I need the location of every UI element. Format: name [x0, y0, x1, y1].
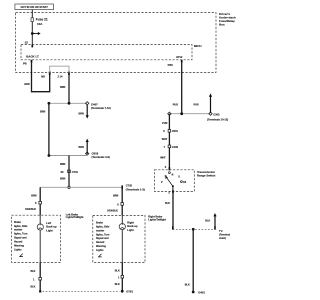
junction dot [180, 112, 183, 115]
svg-text:J 14: J 14 [57, 75, 63, 79]
left ground wire end [39, 290, 41, 292]
svg-text:PUR: PUR [194, 103, 199, 106]
pin C731 [68, 170, 71, 173]
svg-text:WHT: WHT [160, 156, 166, 159]
terminal joint left pin [172, 226, 174, 229]
right back-up light feed: corner pin C732 [121, 185, 123, 189]
BLK stub arrow from right taillight [213, 213, 216, 227]
switch bottom pin [172, 190, 174, 193]
wire from hot box to fuse 21 [31, 10, 33, 18]
right lamp note arrow [99, 254, 102, 257]
svg-text:BACK LT: BACK LT [26, 55, 39, 59]
svg-text:BRN: BRN [79, 113, 84, 116]
down arrow through C407 [86, 105, 89, 119]
wire down to transmission range switch [168, 114, 170, 170]
right back-up bulb [119, 223, 125, 229]
svg-text:C731: C731 [72, 170, 79, 174]
junction dot at left end [48, 154, 51, 157]
svg-text:ORA/BLK: ORA/BLK [107, 210, 118, 213]
svg-text:(Terminals 4-9): (Terminals 4-9) [92, 155, 110, 159]
junction dot at J14 wire [68, 102, 71, 105]
left bypass wire (thick) [48, 103, 50, 155]
pin 5 left [39, 201, 42, 204]
pin C618 [86, 152, 89, 155]
svg-text:BRN: BRN [79, 146, 84, 149]
branch wire with right arrow (to other circuits) [32, 32, 40, 35]
junction bar to C303 [169, 113, 210, 115]
ground continuation dashed link [43, 290, 120, 292]
right back-up light feed wire [121, 187, 123, 215]
svg-text:(Terminals 10-12): (Terminals 10-12) [207, 117, 228, 121]
wire from fuse to MICU pin 22 [31, 22, 33, 45]
svg-text:P8: P8 [23, 61, 27, 65]
up arrow to C618 [86, 139, 89, 154]
svg-text:10A: 10A [37, 22, 43, 26]
svg-text:MICU: MICU [194, 44, 202, 48]
svg-text:WHT: WHT [162, 138, 168, 141]
grey internal jumper between N8 and J14 [50, 66, 69, 72]
pin 5 right [121, 203, 124, 206]
svg-text:G401: G401 [198, 291, 205, 295]
left back-up light feed wire [39, 187, 41, 215]
wire from J14 down [68, 75, 70, 104]
right bulb ground wire [121, 230, 123, 263]
switch contact circle near D3 [181, 181, 183, 183]
center wire down to splice [68, 156, 70, 188]
left rear lamp assembly dashed box [12, 215, 61, 262]
ground point G752 [121, 290, 124, 293]
svg-text:PUR: PUR [162, 122, 167, 125]
fuse 21 [31, 18, 33, 22]
svg-text:BLK: BLK [115, 269, 120, 272]
switch contact under pin 3 [169, 172, 171, 174]
svg-text:C618: C618 [92, 151, 99, 155]
cavity pin N8 on fuse box edge [49, 71, 51, 75]
pin 1 right [121, 275, 124, 278]
svg-text:P20: P20 [168, 63, 174, 67]
svg-text:BRN: BRN [60, 86, 65, 89]
up arrow stub at C303 [209, 93, 212, 113]
terminal joint right pin [214, 226, 216, 229]
pin 1 left [39, 277, 42, 280]
svg-text:GRN: GRN [24, 83, 30, 86]
transmission range switch dashed box [155, 170, 195, 192]
junction bar (horizontal) at y=103 [49, 102, 87, 104]
svg-text:BLK: BLK [115, 283, 120, 286]
svg-text:C501: C501 [172, 129, 179, 133]
svg-text:BRN: BRN [60, 177, 65, 180]
ground wire from switch to terminal joint [172, 193, 174, 230]
svg-text:BLK: BLK [31, 270, 36, 273]
svg-text:TransmissionRange Switch: TransmissionRange Switch [197, 170, 216, 178]
pin C102 [168, 145, 171, 148]
terminal joint dashed bus [173, 228, 215, 230]
right rear lamp assembly dashed box [93, 215, 145, 262]
svg-text:HOT IN ON OR START: HOT IN ON OR START [21, 5, 49, 9]
switch pivot [172, 185, 174, 187]
MICU inner dashed box [21, 45, 192, 60]
left lamp note arrow [20, 254, 23, 257]
svg-text:C732: C732 [126, 183, 133, 187]
terminal joint dot [192, 228, 195, 231]
wire P20 down [181, 62, 183, 114]
svg-text:G751: G751 [126, 289, 133, 293]
svg-text:(Terminals 7-10): (Terminals 7-10) [91, 106, 111, 110]
svg-text:PUR: PUR [173, 103, 178, 106]
svg-text:N8: N8 [41, 75, 45, 79]
switch common lead [172, 186, 174, 191]
pin C501 [168, 130, 171, 133]
svg-text:(Terminals 1-3): (Terminals 1-3) [126, 187, 145, 191]
junction node on fuse wire [31, 32, 34, 35]
svg-text:BRN: BRN [40, 111, 45, 114]
cavity pin J14 on fuse box edge [68, 71, 70, 75]
junction bar (horizontal) at y=155.5 [49, 155, 87, 157]
left back-up bulb [37, 224, 43, 230]
svg-text:BRN: BRN [31, 194, 36, 197]
splice bar to left and right back-up lights [40, 186, 122, 188]
ground point G401 [192, 291, 195, 294]
svg-text:BRN: BRN [113, 195, 118, 198]
svg-text:I/P B: I/P B [176, 55, 182, 59]
left bulb ground wire [39, 230, 41, 262]
svg-text:22: 22 [25, 41, 29, 45]
svg-text:BLK: BLK [185, 284, 190, 287]
switch arm [166, 177, 173, 186]
pin P20 of MICU [181, 60, 183, 63]
pin 22 of MICU [31, 45, 33, 48]
ground wire to G401 [192, 229, 194, 291]
svg-text:BLK: BLK [205, 219, 210, 222]
svg-text:BRN: BRN [60, 163, 65, 166]
hot-in-on-or-start label box [15, 4, 54, 10]
svg-text:C303: C303 [213, 113, 220, 117]
svg-text:C102: C102 [172, 145, 179, 149]
svg-text:C407: C407 [91, 103, 98, 107]
svg-text:BLK: BLK [31, 286, 36, 289]
pin P8 of MICU [31, 60, 33, 63]
junction dot at left end [48, 102, 51, 105]
pin at C303 [209, 112, 212, 115]
corner pin to C407 branch [86, 102, 89, 105]
svg-text:BLK: BLK [165, 202, 170, 205]
splice node (open) [68, 186, 70, 188]
corner pin left end [168, 112, 171, 115]
wire P8 down and u-turn up to cavity N8 [32, 62, 50, 92]
driver's under-dash fuse/relay box (outer dashed box) [16, 13, 216, 73]
svg-text:ORA/BLK: ORA/BLK [25, 208, 36, 211]
